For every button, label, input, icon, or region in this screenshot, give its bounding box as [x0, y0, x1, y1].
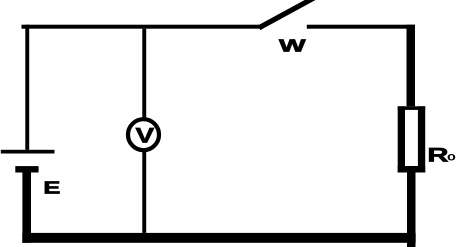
wire: left vertical segment	[25, 25, 29, 150]
switch W blade (open, diagonal)	[259, 0, 316, 28]
wire: right vertical upper segment (thick)	[407, 25, 416, 107]
wire: voltmeter top branch	[142, 29, 146, 119]
battery E negative plate (short thick)	[15, 166, 38, 172]
wire: right vertical lower segment (thick)	[407, 173, 416, 247]
wire: bottom horizontal segment (thick)	[22, 233, 415, 243]
svg-text:E: E	[43, 178, 60, 198]
battery E positive plate (long)	[1, 150, 55, 154]
svg-text:R: R	[427, 145, 448, 167]
resistor R0 body (rectangle)	[398, 106, 426, 172]
wire: battery negative lead (thick vertical)	[22, 172, 31, 243]
svg-text:W: W	[279, 35, 307, 55]
wire: voltmeter bottom branch	[142, 152, 146, 233]
svg-text:V: V	[135, 123, 154, 147]
wire: top-left horizontal segment	[22, 25, 264, 29]
wire: top-right horizontal segment	[307, 25, 415, 29]
voltmeter V (circle)	[128, 119, 159, 150]
svg-text:o: o	[447, 151, 456, 163]
label R0	[427, 145, 455, 167]
